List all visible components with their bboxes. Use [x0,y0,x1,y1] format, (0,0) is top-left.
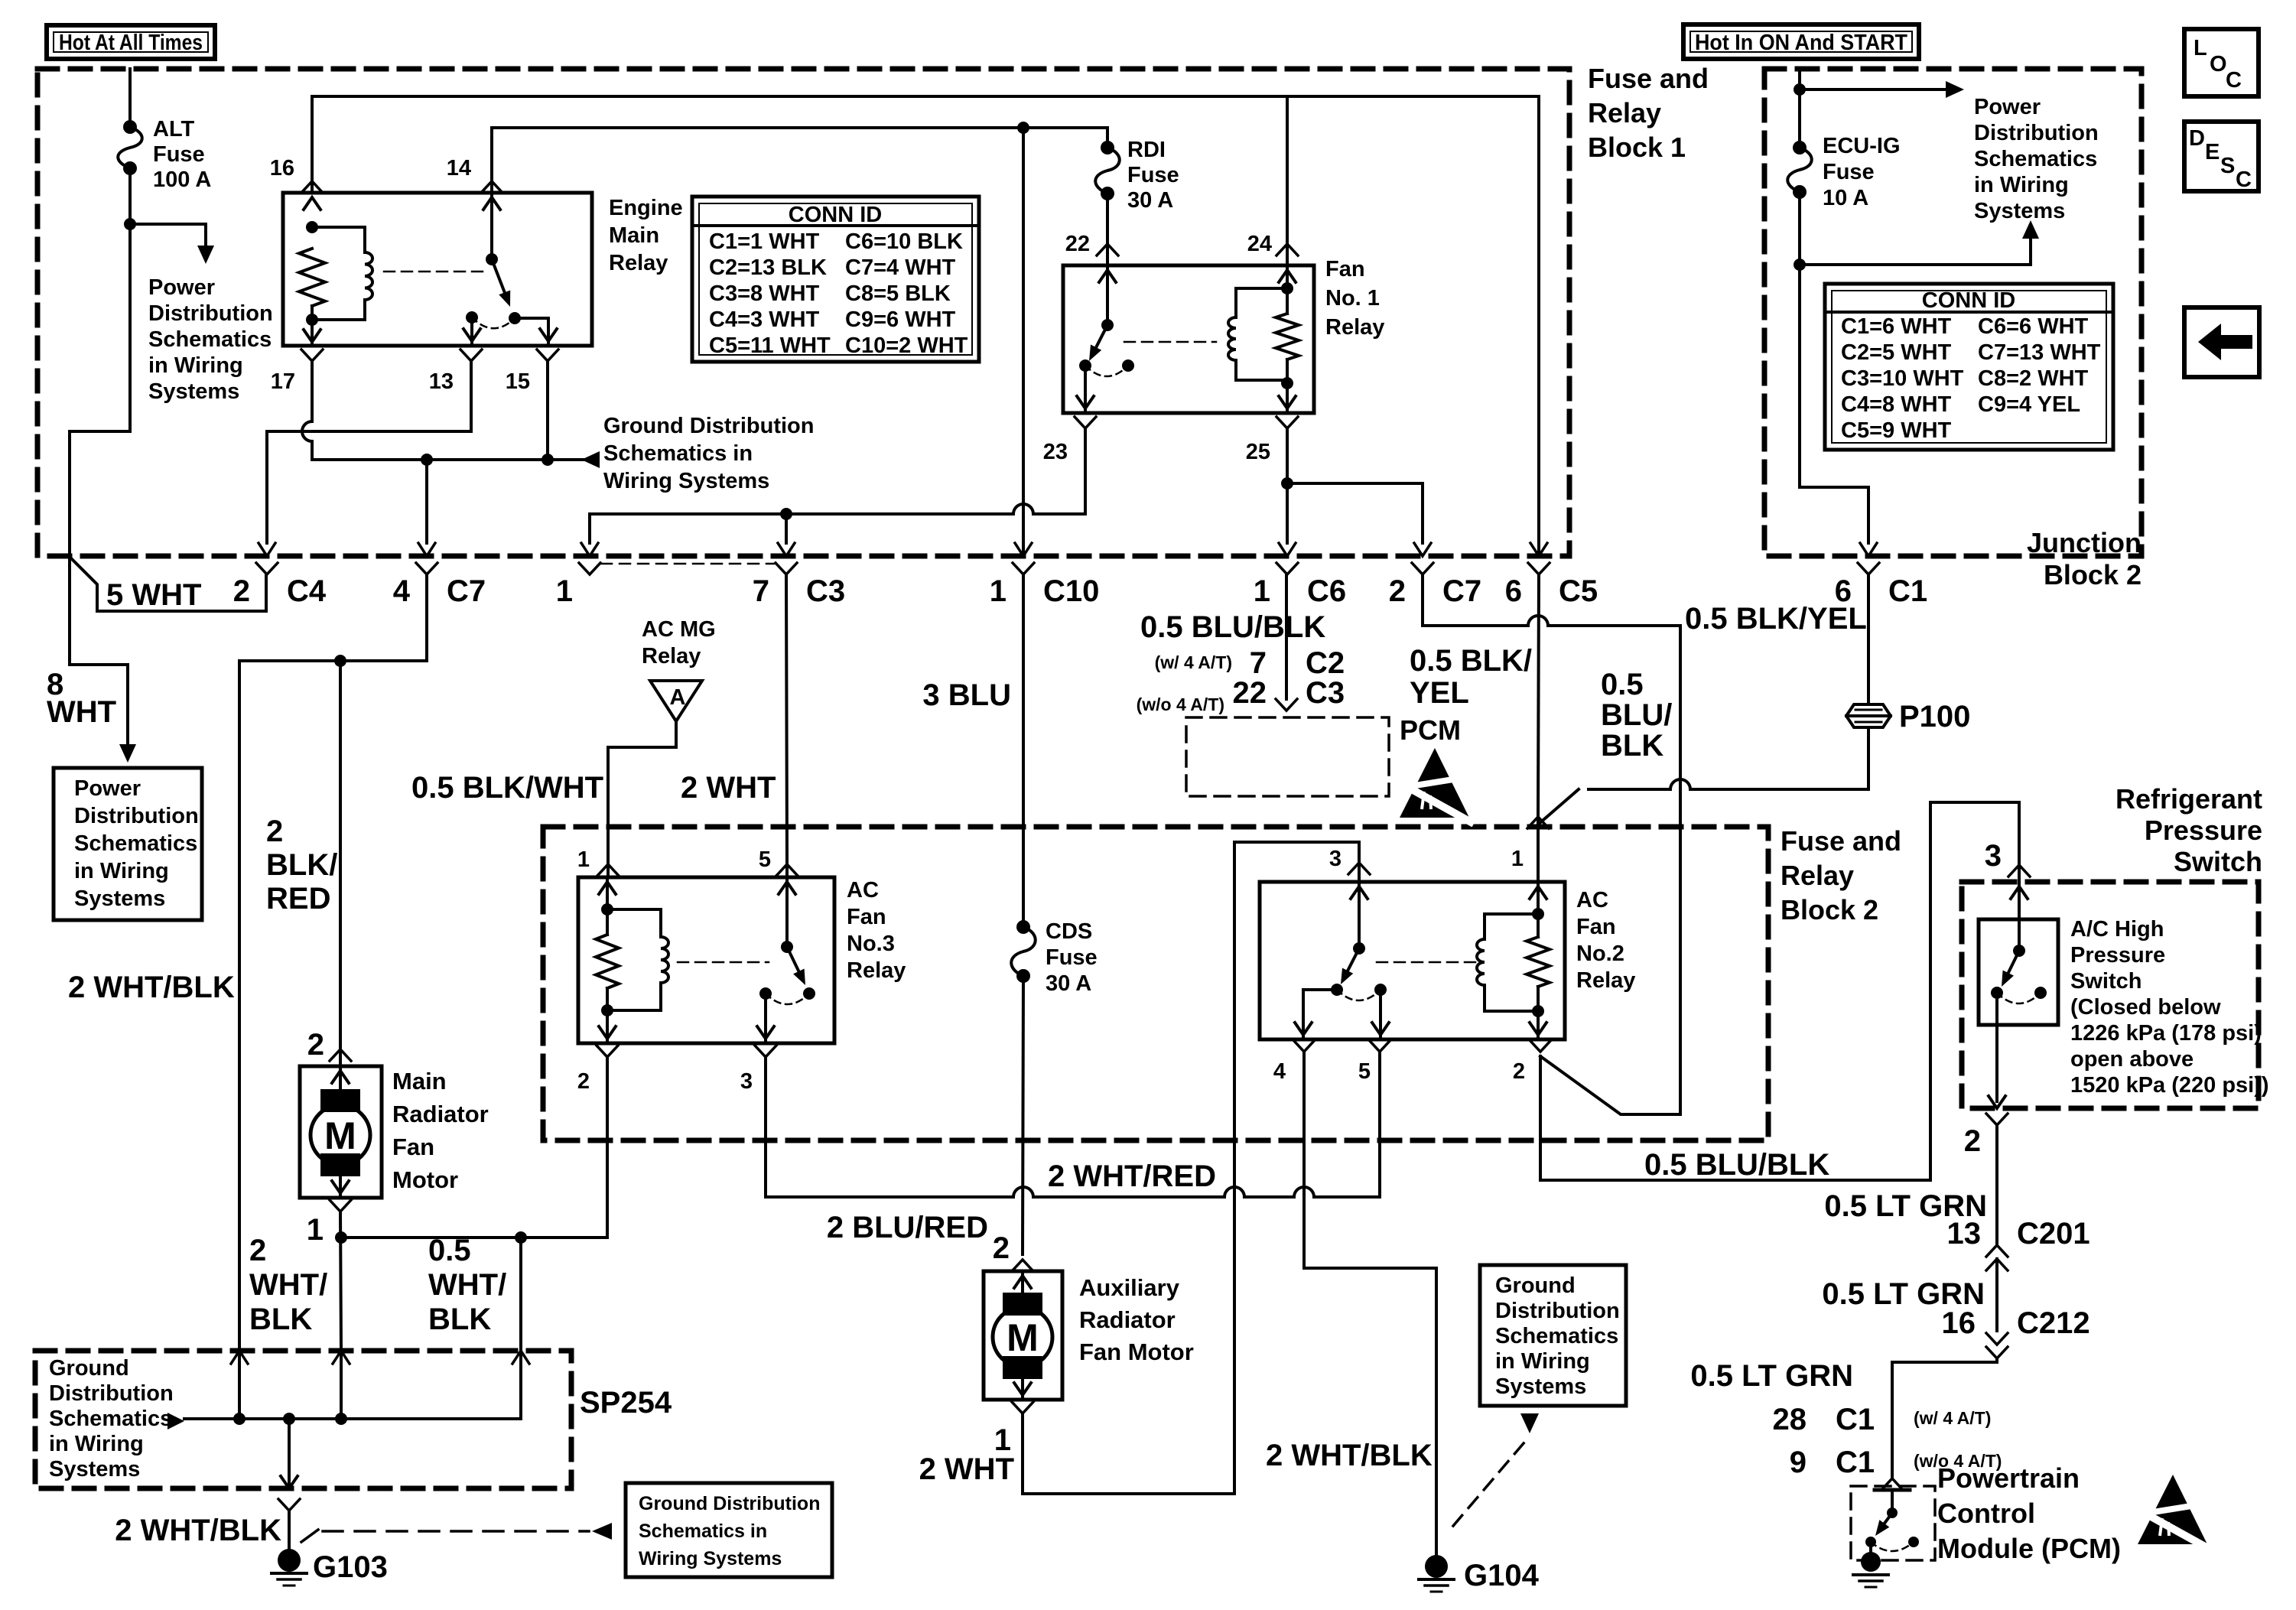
svg-text:1: 1 [556,574,573,608]
svg-text:3: 3 [740,1069,753,1094]
svg-text:Schematics in: Schematics in [639,1521,767,1542]
svg-text:(w/o 4 A/T): (w/o 4 A/T) [1137,694,1224,714]
Junction Block 2 dashed outline [1764,69,2142,556]
svg-text:BLK: BLK [428,1303,491,1336]
svg-text:Fan: Fan [1576,915,1616,939]
pin 4 output [1293,1040,1315,1052]
PCM connector dashed box [1186,717,1389,796]
pin 2 No3 output [597,1046,618,1057]
svg-text:C7: C7 [1442,574,1481,608]
svg-text:Pressure: Pressure [2070,943,2165,968]
svg-text:Fuse: Fuse [1046,945,1098,970]
svg-text:Ground Distribution: Ground Distribution [603,414,814,438]
svg-text:C201: C201 [2017,1217,2090,1251]
svg-text:30 A: 30 A [1046,971,1091,996]
svg-text:C: C [2236,168,2252,192]
svg-text:(Closed below: (Closed below [2070,995,2221,1020]
svg-text:22: 22 [1065,232,1090,256]
wire 2 WHT/RED from No3 pin3 to No2 pin5 [1013,1187,1033,1197]
svg-text:C1=1 WHT: C1=1 WHT [709,229,820,254]
svg-text:0.5 BLK/: 0.5 BLK/ [1410,644,1532,678]
svg-text:Distribution: Distribution [49,1381,174,1406]
svg-text:in Wiring: in Wiring [74,859,169,883]
wire 0.5 BLK/YEL C7 pin2 to AC Fan No2 pin2 [1423,574,1528,626]
link dashed Fan No1 [1124,341,1216,343]
svg-text:CDS: CDS [1046,919,1092,944]
svg-text:ALT: ALT [153,117,195,141]
svg-text:CONN ID: CONN ID [789,203,882,227]
svg-text:1: 1 [577,847,590,872]
back-arrow reference box [2184,307,2259,377]
svg-text:4: 4 [1273,1059,1286,1084]
arrow below box [1520,1413,1539,1433]
wire from Block1 top to ALT fuse [128,69,132,127]
svg-text:Distribution: Distribution [148,301,273,326]
svg-text:2 WHT/BLK: 2 WHT/BLK [115,1514,281,1547]
svg-text:7: 7 [753,574,769,608]
arrow to Ground Distribution reference [581,451,600,468]
svg-text:WHT/: WHT/ [428,1268,506,1302]
svg-text:2 WHT/BLK: 2 WHT/BLK [68,971,235,1004]
wire motor pin1 down to SP254 [340,1212,341,1351]
fuse CDS 30A [1016,920,1030,934]
svg-text:Relay: Relay [1325,315,1384,340]
wire C3 pin7 drop [785,514,788,543]
svg-text:Systems: Systems [74,886,165,911]
SP254 splice dashed box [35,1351,571,1488]
pin 15 output [515,318,548,346]
svg-text:1: 1 [990,574,1007,608]
svg-text:C7=13 WHT: C7=13 WHT [1978,340,2101,365]
pressure switch internals [2011,886,2028,899]
ground G103 [278,1549,301,1572]
link dashed No2 [1377,961,1480,964]
CONN ID table (Fuse and Relay Block 1) [692,197,979,362]
svg-text:100 A: 100 A [153,168,211,192]
svg-text:Fan: Fan [847,905,886,929]
Powertrain Control Module dashed box [1881,1478,1903,1490]
svg-text:Relay: Relay [847,958,906,983]
svg-text:No. 1: No. 1 [1325,286,1380,311]
svg-text:5: 5 [1358,1059,1371,1084]
svg-text:Schematics: Schematics [148,327,272,352]
fuse ALT 100A [123,120,137,134]
resistor in Engine Main Relay [299,249,325,306]
pin 2 output [1530,1040,1551,1052]
Refrigerant Pressure Switch dashed outline [1962,882,2259,1108]
svg-text:0.5 BLU/BLK: 0.5 BLU/BLK [1644,1148,1829,1182]
pin 17 output [301,350,323,361]
svg-text:Fuse: Fuse [1127,163,1179,187]
AC MG Relay triangle symbol [650,681,702,721]
SP254 entry arrows [231,1351,248,1364]
svg-text:2: 2 [233,574,250,608]
svg-text:0.5 BLU/BLK: 0.5 BLU/BLK [1140,610,1325,644]
ESD symbol bottom right [2138,1475,2212,1550]
PCM internal switch [1891,1490,1894,1513]
svg-text:Main: Main [609,223,659,248]
fuse ECU-IG 10A [1793,141,1807,154]
svg-text:Block 1: Block 1 [1588,132,1686,163]
arrow to Power Distribution reference (right) [1800,88,1946,91]
svg-text:Pressure: Pressure [2145,815,2262,846]
ground bus from pin17/15 [427,458,597,461]
svg-text:C4=8 WHT: C4=8 WHT [1841,392,1952,417]
svg-text:Power: Power [1974,95,2041,119]
thin dashed connector link C3 pin1-pin7 [601,563,774,565]
pin 14 wire from relay to RDI branch [492,128,1107,193]
svg-text:Hot In ON And START: Hot In ON And START [1695,31,1907,55]
svg-text:0.5: 0.5 [1601,668,1644,701]
svg-text:C: C [2226,68,2242,93]
svg-text:Relay: Relay [1576,968,1635,993]
svg-text:17: 17 [271,369,295,394]
wire C3 pin7 to AC Fan No3 relay pin 5 [786,574,787,863]
svg-text:4: 4 [393,574,411,608]
svg-text:Systems: Systems [49,1457,140,1482]
pin 5 output [1369,1040,1390,1052]
svg-text:2 WHT: 2 WHT [919,1452,1014,1486]
Power Distribution Schematics box (left) [54,768,202,920]
svg-text:2 BLU/RED: 2 BLU/RED [827,1211,988,1244]
svg-text:C2=13 BLK: C2=13 BLK [709,255,827,280]
svg-text:2 WHT/RED: 2 WHT/RED [1048,1160,1216,1193]
svg-text:Fuse: Fuse [1823,160,1875,184]
svg-text:M: M [1007,1316,1039,1359]
svg-text:BLK: BLK [249,1303,312,1336]
svg-text:2: 2 [249,1234,266,1267]
AC Fan No2 switch [1351,886,1368,899]
svg-text:Relay: Relay [642,644,701,668]
svg-text:C4=3 WHT: C4=3 WHT [709,307,820,332]
svg-text:Distribution: Distribution [1974,121,2099,145]
svg-text:C9=4 YEL: C9=4 YEL [1978,392,2080,417]
svg-text:PCM: PCM [1400,714,1461,746]
svg-text:BLK: BLK [1601,729,1663,763]
connector pins at Block 1 bottom [256,563,278,574]
svg-text:A: A [670,685,686,710]
svg-text:C2: C2 [1306,646,1345,680]
svg-text:Junction: Junction [2027,527,2142,558]
svg-text:2: 2 [1964,1124,1981,1158]
wire AC MG relay to AC Fan No3 relay pin 1 [608,721,676,863]
svg-text:Fuse: Fuse [153,142,205,167]
svg-text:Systems: Systems [1495,1374,1586,1399]
svg-text:2: 2 [266,815,283,848]
SP254 ground bus [184,1351,521,1419]
svg-text:P100: P100 [1899,700,1970,733]
wire to PCM module [1892,1358,1997,1476]
svg-text:1: 1 [1511,847,1524,871]
pin 25 output [1276,417,1298,428]
svg-text:SP254: SP254 [580,1386,672,1420]
svg-text:Fan: Fan [1325,257,1365,281]
svg-text:C2=5 WHT: C2=5 WHT [1841,340,1952,365]
svg-text:in Wiring: in Wiring [148,353,243,378]
wire 0.5 WHT/BLK drop to SP254 [515,1231,527,1244]
svg-text:5: 5 [759,847,771,872]
LOC reference box [2184,29,2259,96]
link dashed No3 [678,961,769,964]
Ground Distribution box (bottom) [626,1483,832,1577]
pin 6 C1 connector (Junction Block 2) [1858,563,1879,574]
svg-text:Module (PCM): Module (PCM) [1937,1533,2121,1564]
junction dot to C10 drop [1017,122,1029,134]
svg-text:Schematics: Schematics [74,831,197,856]
DESC reference box [2184,122,2259,191]
svg-text:7: 7 [1250,646,1267,680]
wire ALT fuse down with junction [70,168,130,556]
svg-text:Schematics: Schematics [1495,1324,1618,1348]
svg-text:S: S [2220,154,2235,178]
svg-text:AC: AC [1576,888,1608,912]
Ground Distribution box (near G104) [1480,1265,1626,1406]
svg-text:Fan Motor: Fan Motor [1079,1338,1194,1365]
svg-text:CONN ID: CONN ID [1922,288,2015,313]
svg-text:2: 2 [1513,1059,1525,1084]
dashed leader from G104 [1453,1438,1528,1526]
svg-text:Fan: Fan [392,1134,434,1160]
wire Aux pin1 horizontal [1021,1438,1024,1494]
svg-text:open above: open above [2070,1047,2194,1072]
svg-text:Systems: Systems [1974,199,2065,223]
wire C1 pin6 through P100 to pin1 [1867,574,1870,704]
svg-text:Switch: Switch [2070,969,2142,994]
svg-text:C212: C212 [2017,1306,2090,1340]
pin 16 wire from relay to top bus [312,96,1539,556]
svg-text:C4: C4 [287,574,327,608]
svg-text:Systems: Systems [148,379,239,404]
svg-text:C1=6 WHT: C1=6 WHT [1841,314,1952,339]
svg-text:C5=9 WHT: C5=9 WHT [1841,418,1952,443]
pin 24 wire from top bus [1286,96,1289,265]
CONN ID table (Junction Block 2) [1825,284,2113,450]
A/C High Pressure Switch box [1979,919,2058,1025]
wire ECU-IG fuse down [1800,192,1868,543]
svg-text:6: 6 [1505,574,1522,608]
svg-text:in Wiring: in Wiring [49,1432,144,1456]
svg-text:10 A: 10 A [1823,186,1868,210]
svg-text:Block 2: Block 2 [1781,894,1878,925]
svg-text:C3: C3 [806,574,845,608]
svg-text:RED: RED [266,882,330,916]
svg-text:Powertrain: Powertrain [1937,1462,2080,1494]
svg-text:28: 28 [1773,1403,1807,1436]
Engine Main Relay switch [490,193,493,259]
pin 13 output [470,317,473,346]
svg-text:Wiring Systems: Wiring Systems [603,469,769,493]
svg-text:Hot At All Times: Hot At All Times [59,31,203,55]
wire 0.5 BLU/BLK No2 pin2 to pressure switch pin3 [1540,802,2019,1180]
wire C7 pin4 to motors [239,574,427,1351]
svg-text:Motor: Motor [392,1166,458,1193]
svg-text:16: 16 [270,156,294,181]
svg-text:0.5 BLK/YEL: 0.5 BLK/YEL [1685,602,1867,636]
wire branch to Main Radiator Fan Motor pin 2 [339,661,342,1049]
svg-text:WHT: WHT [47,695,116,729]
svg-text:Schematics: Schematics [1974,147,2097,171]
AC Fan No3 coil branch [599,882,616,894]
svg-text:9: 9 [1790,1446,1807,1479]
wire C5 pin6 to AC Fan No2 relay pin 1 [1538,574,1539,815]
svg-text:YEL: YEL [1410,676,1469,710]
svg-text:Power: Power [74,776,141,801]
svg-text:C7=4 WHT: C7=4 WHT [845,255,956,280]
svg-text:Ground: Ground [1495,1273,1576,1298]
svg-text:C5: C5 [1559,574,1598,608]
svg-text:G103: G103 [313,1550,388,1584]
pin 23 output to C3 [1075,417,1096,428]
svg-text:0.5: 0.5 [428,1234,471,1267]
Fuse and Relay Block 1 dashed outline [37,69,1569,556]
relay box Fan No.1 Relay [1063,265,1314,413]
svg-text:2 WHT/BLK: 2 WHT/BLK [1266,1439,1433,1472]
svg-text:0.5 BLK/WHT: 0.5 BLK/WHT [411,771,603,805]
svg-text:No.3: No.3 [847,932,895,956]
svg-text:0.5 LT GRN: 0.5 LT GRN [1690,1359,1853,1393]
svg-text:C1: C1 [1836,1403,1875,1436]
svg-text:Schematics in: Schematics in [603,441,753,466]
svg-text:3 BLU: 3 BLU [922,678,1011,712]
svg-text:C1: C1 [1836,1446,1875,1479]
svg-text:D: D [2189,126,2205,151]
dashed leader to Ground Distribution box [301,1530,318,1542]
svg-text:Relay: Relay [1781,860,1854,891]
svg-text:Relay: Relay [609,251,668,275]
svg-text:Wiring Systems: Wiring Systems [639,1548,782,1569]
svg-text:Block 2: Block 2 [2044,559,2142,590]
svg-text:30 A: 30 A [1127,188,1173,213]
G103 stem [288,1419,291,1487]
svg-text:No.2: No.2 [1576,942,1624,966]
pin 22 wire [1106,194,1109,265]
svg-text:in Wiring: in Wiring [1974,173,2069,197]
AC Fan No3 switch [779,882,795,894]
svg-text:2: 2 [993,1231,1010,1265]
svg-text:C6: C6 [1307,574,1346,608]
svg-text:Ground: Ground [49,1356,129,1381]
svg-text:15: 15 [506,369,530,394]
svg-text:Refrigerant: Refrigerant [2116,783,2262,815]
diagonal to pin1 [1538,789,1579,825]
svg-text:C10=2 WHT: C10=2 WHT [845,333,968,358]
svg-text:C3=10 WHT: C3=10 WHT [1841,366,1964,391]
wire C10 down through CDS fuse to Aux motor [1022,128,1025,556]
arrow up reference [1800,239,2031,265]
svg-text:Fuse and: Fuse and [1781,825,1901,857]
svg-text:in Wiring: in Wiring [1495,1349,1590,1374]
AC Fan No2 coil [1530,886,1546,899]
pin 2 pressure switch [1986,1114,2008,1125]
Fan No1 relay switch [1099,270,1116,282]
svg-text:C3=8 WHT: C3=8 WHT [709,281,820,306]
svg-text:RDI: RDI [1127,138,1166,162]
svg-text:O: O [2210,52,2227,76]
svg-text:Control: Control [1937,1498,2035,1529]
wire ECU-IG from border [1798,69,1801,148]
svg-text:23: 23 [1043,440,1068,464]
svg-text:C3: C3 [1306,676,1345,710]
svg-text:Radiator: Radiator [392,1101,489,1127]
svg-text:Radiator: Radiator [1079,1306,1176,1333]
svg-text:16: 16 [1942,1306,1976,1340]
wire pin25 to C7 pin2 [1287,483,1423,543]
fuse RDI 30A [1101,141,1114,154]
svg-text:C6=10 BLK: C6=10 BLK [845,229,963,254]
svg-text:2: 2 [577,1069,590,1094]
svg-text:2: 2 [1389,574,1406,608]
wire 8 WHT drop to Power Distribution box [70,556,128,743]
pin 3 No3 output [755,1046,776,1057]
svg-text:24: 24 [1247,232,1272,256]
svg-text:5 WHT: 5 WHT [106,578,201,612]
svg-text:C8=2 WHT: C8=2 WHT [1978,366,2089,391]
svg-text:E: E [2205,140,2220,164]
coil in Engine Main Relay [312,227,365,252]
svg-text:Switch: Switch [2174,846,2262,877]
svg-text:G104: G104 [1464,1559,1540,1592]
svg-text:C10: C10 [1043,574,1099,608]
svg-text:25: 25 [1246,440,1270,464]
relay box AC Fan No.3 Relay [578,877,834,1043]
svg-text:C7: C7 [447,574,486,608]
connector P100 [1846,704,1891,727]
svg-text:Engine: Engine [609,196,683,220]
svg-text:C9=6 WHT: C9=6 WHT [845,307,956,332]
svg-text:BLK/: BLK/ [266,848,337,882]
svg-text:(w/ 4 A/T): (w/ 4 A/T) [1155,652,1232,672]
svg-text:Schematics: Schematics [49,1407,172,1431]
relay box AC Fan No.2 Relay [1260,882,1565,1039]
svg-text:1520 kPa (220 psi)): 1520 kPa (220 psi)) [2070,1073,2269,1098]
wire 5 WHT label construct to C4 pin 2 [72,559,266,611]
svg-text:A/C High: A/C High [2070,917,2164,942]
svg-text:Auxiliary: Auxiliary [1079,1274,1180,1301]
wire C6 pin1 to PCM connector [1285,574,1288,699]
svg-text:C8=5 BLK: C8=5 BLK [845,281,951,306]
svg-text:C1: C1 [1888,574,1927,608]
svg-text:13: 13 [1947,1217,1982,1251]
svg-text:(w/ 4 A/T): (w/ 4 A/T) [1914,1408,1991,1428]
svg-text:C5=11 WHT: C5=11 WHT [709,333,831,358]
ground G104 [1425,1555,1448,1578]
svg-text:14: 14 [447,156,471,181]
svg-text:WHT/: WHT/ [249,1268,327,1302]
svg-text:Ground Distribution: Ground Distribution [639,1493,820,1514]
svg-text:1: 1 [307,1213,324,1247]
svg-text:L: L [2194,36,2207,60]
svg-text:1226 kPa (178 psi): 1226 kPa (178 psi) [2070,1021,2262,1046]
svg-text:2: 2 [307,1028,324,1062]
svg-text:ECU-IG: ECU-IG [1823,134,1901,158]
svg-text:Distribution: Distribution [74,804,199,828]
svg-text:Main: Main [392,1068,447,1094]
branch arrow to Power Distribution reference [130,224,206,246]
relay box Engine Main Relay [283,193,592,346]
svg-text:Power: Power [148,275,215,300]
svg-text:22: 22 [1233,676,1267,710]
svg-text:Distribution: Distribution [1495,1299,1620,1323]
SP254 arrow right [167,1413,184,1429]
Fuse and Relay Block 2 dashed outline [543,827,1768,1140]
svg-text:M: M [324,1114,356,1157]
Fan No1 relay coil [1279,270,1296,282]
svg-text:13: 13 [429,369,454,394]
svg-text:Relay: Relay [1588,97,1661,128]
svg-text:3: 3 [1329,847,1342,871]
wire pin13-bus down to C7 pin4 [425,460,428,543]
resistor Fan No1 relay [1276,314,1299,359]
